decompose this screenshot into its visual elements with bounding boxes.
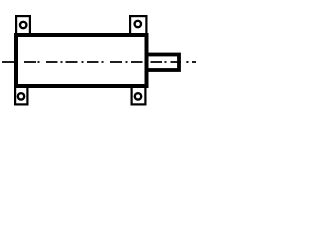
hole bottom-right xyxy=(135,93,141,99)
mounting tab top-left xyxy=(16,16,30,36)
hole bottom-left xyxy=(18,93,24,99)
hole top-right xyxy=(135,21,141,27)
shaft xyxy=(147,55,180,71)
hole top-left xyxy=(20,22,26,28)
mounting tab bottom-right xyxy=(132,85,146,104)
motor body xyxy=(16,35,147,86)
mounting tab top-right xyxy=(130,16,146,36)
centerline dash-dot xyxy=(2,61,196,63)
mounting tab bottom-left xyxy=(15,85,27,104)
